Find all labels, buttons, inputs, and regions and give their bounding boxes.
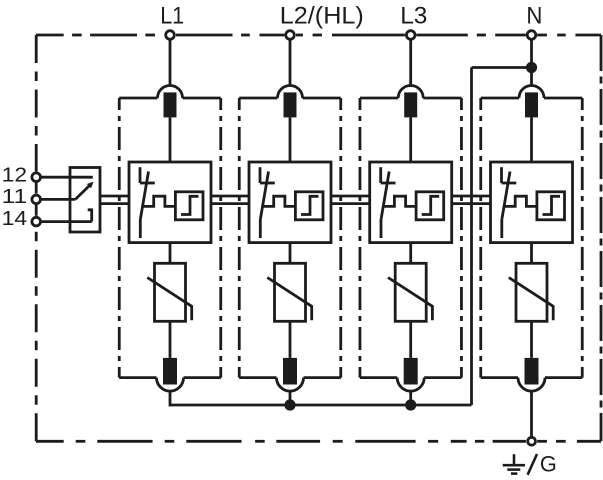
- function indicator box 1: [175, 192, 203, 220]
- changeover switch blade: [75, 184, 90, 199]
- wire box to varistor 2: [289, 243, 292, 264]
- wire disconnect to switch box 4: [530, 117, 533, 162]
- svg-text:N: N: [526, 3, 542, 30]
- enclosure border bottom: [36, 440, 601, 443]
- varistor 1 body: [155, 263, 186, 321]
- disconnector/monitoring box 3: [370, 162, 452, 243]
- thermal disconnect top F1: [158, 85, 183, 117]
- junction node module 3 / bus: [405, 399, 416, 410]
- junction node N: [526, 62, 537, 73]
- thermal disconnect bottom 1: [157, 358, 184, 391]
- svg-text:L2/(HL): L2/(HL): [280, 3, 364, 30]
- step trigger line 1: [143, 196, 176, 206]
- thermal disconnect top F4: [519, 85, 544, 117]
- svg-text:11: 11: [2, 186, 28, 208]
- enclosure border right: [600, 35, 603, 441]
- varistor 2 body: [275, 263, 306, 321]
- svg-text:L3: L3: [400, 3, 427, 30]
- wire riser top horizontal: [472, 66, 532, 69]
- thermal disconnect bottom 2: [277, 358, 304, 391]
- disconnector/monitoring box 1: [129, 162, 211, 243]
- wire varistor to bottom disconnect 2: [289, 321, 292, 358]
- terminal 12 wire: [41, 176, 93, 179]
- protection path 2 module box: [239, 98, 341, 378]
- contact 14 hook: [88, 210, 92, 222]
- indicator step symbol 1: [181, 196, 199, 214]
- wire varistor to bottom disconnect 4: [530, 321, 533, 358]
- varistor 3 diagonal: [388, 278, 432, 321]
- disconnect switch 2: [260, 167, 275, 238]
- earth symbol: [503, 454, 525, 473]
- terminal L2/(HL): [286, 31, 295, 40]
- terminal L1: [166, 31, 175, 40]
- coupling lines between modules: [452, 196, 491, 204]
- left border link 12-11: [35, 182, 38, 194]
- blade arrowhead: [87, 182, 94, 189]
- step trigger line 4: [504, 196, 537, 206]
- varistor 2 diagonal: [267, 278, 311, 321]
- terminal N wire down: [530, 39, 533, 85]
- wire disconnect to switch box 1: [169, 117, 172, 162]
- indicator step symbol 2: [301, 196, 319, 214]
- disconnector/monitoring box 2: [249, 162, 331, 243]
- indicator step symbol 4: [543, 196, 561, 214]
- varistor 4 diagonal: [509, 278, 553, 321]
- function indicator box 4: [537, 192, 565, 220]
- varistor 1 diagonal: [147, 278, 191, 321]
- wire varistor to bottom disconnect 1: [169, 321, 172, 358]
- slash: [528, 454, 537, 475]
- indicator step symbol 3: [422, 196, 440, 214]
- wire disconnect to switch box 3: [409, 117, 412, 162]
- wire box to varistor 4: [530, 243, 533, 264]
- thermal disconnect top F2: [278, 85, 303, 117]
- varistor 4 body: [516, 263, 547, 321]
- wire bottom PE bus: [170, 404, 472, 407]
- svg-text:L1: L1: [160, 3, 184, 30]
- terminal L2/(HL) wire down: [289, 39, 292, 85]
- coupling lines between modules: [331, 196, 370, 204]
- coupling lines between modules: [100, 196, 129, 204]
- disconnect switch 4: [502, 167, 517, 238]
- function indicator box 2: [295, 192, 323, 220]
- left border link 11-14: [35, 204, 38, 216]
- enclosure border left: [35, 35, 38, 441]
- remote signalling box: [70, 168, 100, 233]
- terminal L1 wire down: [169, 39, 172, 85]
- terminal 11 wire: [41, 198, 76, 201]
- wire module 3 to bus: [409, 391, 412, 407]
- function indicator box 3: [416, 192, 444, 220]
- junction node module 2 / bus: [284, 399, 295, 410]
- wire riser to N node: [470, 68, 473, 406]
- protection path 1 module box: [119, 98, 221, 378]
- wire module 2 to bus: [289, 391, 292, 407]
- wire disconnect to switch box 2: [289, 117, 292, 162]
- step trigger line 3: [383, 196, 416, 206]
- protection path 3 module box: [360, 98, 462, 378]
- coupling lines between modules: [211, 196, 249, 204]
- terminal N: [527, 31, 536, 40]
- svg-text:12: 12: [2, 164, 28, 186]
- svg-text:14: 14: [2, 208, 28, 230]
- terminal 14: [32, 217, 41, 226]
- wire box to varistor 3: [409, 243, 412, 264]
- disconnect switch 1: [140, 167, 155, 238]
- wire module 1 to bus: [169, 391, 172, 407]
- step trigger line 2: [263, 196, 296, 206]
- protection path 4 module box: [481, 98, 583, 378]
- disconnect switch 3: [381, 167, 396, 238]
- terminal L3 wire down: [409, 39, 412, 85]
- wire N to ground terminal: [530, 391, 533, 437]
- terminal 11: [32, 195, 41, 204]
- disconnector/monitoring box 4: [491, 162, 573, 243]
- svg-text:G: G: [540, 451, 557, 476]
- varistor 3 body: [395, 263, 426, 321]
- thermal disconnect bottom 4: [518, 358, 545, 391]
- ground terminal: [528, 437, 536, 445]
- terminal 14 wire: [41, 220, 92, 223]
- wire varistor to bottom disconnect 3: [409, 321, 412, 358]
- terminal 12: [32, 173, 41, 182]
- enclosure border top: [36, 34, 601, 37]
- terminal L3: [406, 31, 415, 40]
- thermal disconnect bottom 3: [397, 358, 424, 391]
- thermal disconnect top F3: [398, 86, 423, 118]
- wire box to varistor 1: [169, 243, 172, 264]
